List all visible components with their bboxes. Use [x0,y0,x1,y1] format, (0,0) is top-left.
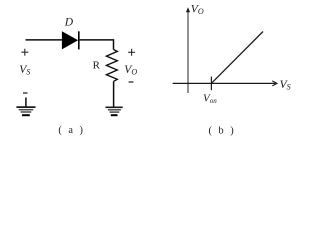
- sign (Vo output) [129,81,134,83]
svg-text:D: D [64,17,74,29]
wire from resistor bottom to ground [113,81,115,106]
+ sign (Vs source) [21,49,28,56]
Vs axis (horizontal) of graph b [173,82,276,84]
+ sign (Vo output) [128,49,135,56]
svg-text:R: R [93,60,101,72]
transfer curve (diagonal line) [211,32,263,84]
svg-text:Von: Von [203,92,217,105]
- sign (Vs source) [23,92,28,94]
svg-text:VO: VO [191,4,204,17]
Vo axis (vertical) of graph b [187,9,189,93]
svg-text:VS: VS [19,64,30,77]
resistor R [106,50,117,82]
diode D [62,31,79,49]
svg-text:VO: VO [124,64,137,77]
ground (under resistor) [106,107,123,115]
wire from diode cathode to resistor top (with corner) [80,40,114,50]
Vo axis arrowhead [186,7,190,12]
svg-text:VS: VS [280,79,291,92]
Von tick mark [210,77,212,91]
wire from Vs + terminal to diode anode [26,39,63,41]
Vs axis arrowhead [272,81,277,86]
svg-text:( b ): ( b ) [209,125,236,136]
svg-text:( a ): ( a ) [58,125,85,136]
ground (under Vs) [16,98,35,116]
